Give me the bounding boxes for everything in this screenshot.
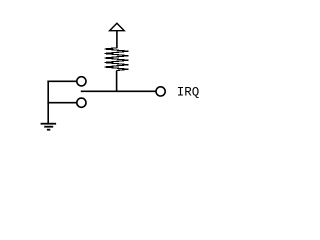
wire (top contact stub) <box>47 80 76 82</box>
wire (arrow stem to resistor top) <box>116 31 118 49</box>
wire (resistor bottom lead) <box>116 71 118 92</box>
ground <box>41 124 57 130</box>
switch S1 bottom throw contact <box>77 98 86 107</box>
power supply arrow (VCC) <box>110 23 125 31</box>
node IRQ (open terminal circle) <box>156 87 165 96</box>
wire (switch pole to IRQ node) <box>81 90 156 92</box>
wire (bottom contact stub) <box>47 102 76 104</box>
switch S1 top throw contact <box>77 77 86 86</box>
wire (left vertical to ground) <box>47 81 49 124</box>
resistor R1 (pull-up) <box>105 48 129 71</box>
svg-text:IRQ: IRQ <box>177 85 200 99</box>
